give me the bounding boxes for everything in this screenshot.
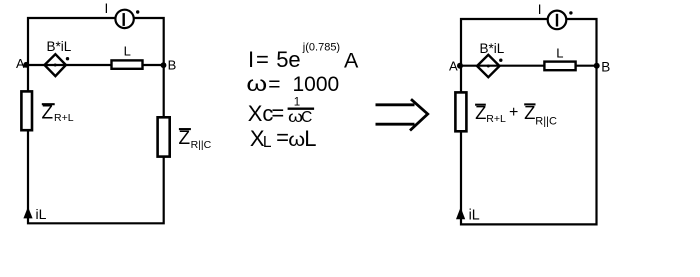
svg-text:A: A <box>344 48 359 72</box>
value label Z_R+L + Z_R||C (right) <box>475 102 557 128</box>
dependent source B*iL (left, diamond) <box>45 54 66 76</box>
svg-text:ω: ω <box>288 129 305 151</box>
wire left-circuit A-B branch <box>27 64 164 66</box>
node A (left) <box>23 62 29 68</box>
wire right-circuit A-B branch <box>460 65 597 67</box>
svg-text:L: L <box>556 45 563 60</box>
svg-text:B*iL: B*iL <box>480 41 505 56</box>
polarity dot at diamond (right) <box>499 59 502 62</box>
svg-text:I: I <box>248 47 254 72</box>
svg-text:+: + <box>509 104 518 121</box>
svg-text:1: 1 <box>294 96 300 108</box>
node B (left) <box>161 62 167 68</box>
svg-text:C: C <box>301 109 312 126</box>
svg-text:A: A <box>449 59 458 74</box>
wire right-circuit outer loop <box>461 19 597 224</box>
svg-text:I: I <box>105 1 109 16</box>
current source I (right) <box>548 11 567 30</box>
equation I = 5e^j(0.785) A <box>248 42 359 73</box>
svg-text:R+L: R+L <box>486 113 506 125</box>
inductor L (left) <box>112 60 143 68</box>
equation Xc = 1/(omega C) <box>248 96 314 126</box>
value label Z_R+L (left) <box>42 103 74 124</box>
svg-text:5e: 5e <box>276 47 300 72</box>
svg-text:iL: iL <box>36 206 47 222</box>
node A (right) <box>457 63 463 69</box>
svg-text:B: B <box>168 57 177 72</box>
impedance Z_R+L + Z_R||C (right) <box>455 92 466 131</box>
current arrow iL (left) <box>23 207 32 219</box>
inductor L (right) <box>544 62 575 71</box>
svg-text:=: = <box>256 47 269 72</box>
equation XL = omega L <box>250 125 317 151</box>
svg-text:B*iL: B*iL <box>47 39 72 54</box>
dependent source B*iL (right, diamond) <box>477 55 500 77</box>
svg-text:I: I <box>538 2 542 17</box>
svg-text:A: A <box>16 56 25 71</box>
polarity dot at diamond (left) <box>66 57 69 60</box>
svg-text:j(0.785): j(0.785) <box>302 42 340 54</box>
svg-text:Z: Z <box>179 128 191 149</box>
impedance Z_R+L (left) <box>21 91 32 130</box>
polarity dot at current source (left) <box>136 10 139 13</box>
svg-text:=: = <box>271 100 284 125</box>
implication arrow => <box>376 99 428 130</box>
svg-text:R+L: R+L <box>54 112 74 124</box>
svg-text:ω: ω <box>246 72 267 96</box>
svg-text:Xc: Xc <box>248 101 274 126</box>
svg-text:R||C: R||C <box>191 139 212 151</box>
svg-text:Z: Z <box>42 103 54 124</box>
polarity dot at current source (right) <box>569 11 572 14</box>
svg-text:=: = <box>276 125 289 150</box>
current source I (left) <box>115 10 133 28</box>
current arrow iL (right) <box>456 207 465 219</box>
svg-text:L: L <box>263 134 272 151</box>
svg-text:L: L <box>124 44 131 59</box>
equation omega = 1000 <box>246 72 339 96</box>
value label Z_R||C (left) <box>179 128 212 151</box>
wire left-circuit outer loop <box>28 18 164 223</box>
impedance Z_R||C (left) <box>158 117 170 156</box>
svg-text:R||C: R||C <box>535 116 557 128</box>
svg-text:iL: iL <box>469 208 480 224</box>
svg-text:L: L <box>304 126 316 151</box>
svg-text:B: B <box>601 59 610 74</box>
node B (right) <box>594 63 600 69</box>
svg-text:=: = <box>268 73 280 96</box>
svg-text:1000: 1000 <box>293 73 340 96</box>
